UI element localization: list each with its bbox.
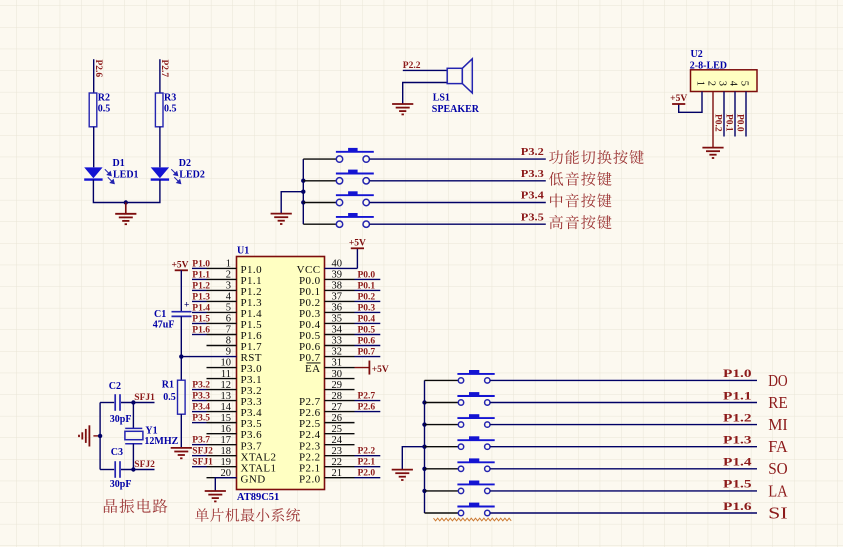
U1 pin 6 P1.5 <box>192 314 262 331</box>
wire button to net P1.0 <box>490 379 757 381</box>
U1 pin 36 P0.3 <box>299 303 380 320</box>
svg-text:LED1: LED1 <box>113 170 139 181</box>
caption 晶振电路 <box>104 499 167 513</box>
U1 pin 27 P2.6 <box>299 402 380 419</box>
svg-text:17: 17 <box>221 435 232 446</box>
U1 pin 13 P3.3 <box>192 391 262 408</box>
svg-text:U2: U2 <box>691 49 703 60</box>
U1 pin 19 XTAL1 <box>192 457 276 474</box>
U1 pin 22 P2.1 <box>299 457 380 474</box>
svg-text:P3.5: P3.5 <box>521 212 544 223</box>
wire U2 pin3 net P0.2 <box>723 92 725 137</box>
wire bus to button LA <box>425 490 459 492</box>
svg-text:6: 6 <box>226 314 231 325</box>
junction dots on top button bus <box>301 179 305 205</box>
svg-text:SFJ1: SFJ1 <box>134 393 155 403</box>
svg-text:U1: U1 <box>237 246 249 257</box>
caption 中音按键 <box>550 193 611 207</box>
ground for note buttons <box>392 470 413 480</box>
svg-text:40: 40 <box>332 259 343 270</box>
U1 pin 29 NC <box>325 380 355 391</box>
junction at side ground <box>98 434 102 438</box>
wire bus to button S3 <box>303 180 336 182</box>
U1 pin 25 P2.4 <box>299 424 354 441</box>
svg-text:11: 11 <box>221 369 231 380</box>
wire C1 to RST junction to R1 <box>180 316 182 380</box>
svg-text:47uF: 47uF <box>153 320 175 331</box>
svg-text:AT89C51: AT89C51 <box>237 492 279 503</box>
push button RE <box>457 392 494 405</box>
svg-text:R1: R1 <box>162 380 174 391</box>
capacitor C1 (electrolytic) <box>172 312 192 317</box>
svg-text:10: 10 <box>221 358 232 369</box>
svg-text:16: 16 <box>221 424 232 435</box>
svg-text:P2.7: P2.7 <box>358 392 376 402</box>
svg-text:P2.7: P2.7 <box>159 60 169 78</box>
svg-text:P0.4: P0.4 <box>358 314 376 324</box>
U1 pin 33 P0.6 <box>299 336 380 353</box>
svg-text:P3.2: P3.2 <box>521 147 544 158</box>
svg-text:P1.6: P1.6 <box>192 325 210 335</box>
push button FA <box>457 436 494 449</box>
wire bus to button S5 <box>303 223 336 225</box>
caption 低音按键 <box>549 172 612 186</box>
svg-text:R3: R3 <box>164 93 176 104</box>
caption 高音按键 <box>549 215 611 229</box>
wire button S3 to net P3.3 <box>370 180 546 182</box>
side ground of crystal circuit <box>79 425 89 446</box>
wire crystal left bus <box>99 403 101 470</box>
svg-text:31: 31 <box>332 358 343 369</box>
wire button S4 to net P3.4 <box>370 202 546 204</box>
svg-text:SFJ2: SFJ2 <box>134 460 155 470</box>
svg-text:27: 27 <box>332 402 343 413</box>
+5V symbol at EA pin 31 <box>355 361 389 376</box>
wire +5V to C1 <box>180 270 182 311</box>
svg-text:DO: DO <box>768 371 788 390</box>
U1 pin 10 P3.0 <box>207 358 263 375</box>
U1 pin 15 P3.5 <box>192 413 262 430</box>
svg-text:13: 13 <box>221 391 232 402</box>
svg-text:D2: D2 <box>179 158 191 169</box>
push button SI <box>457 503 494 516</box>
U1 pin 4 P1.3 <box>192 292 262 309</box>
junction at RST node <box>179 354 183 358</box>
+5V symbol of reset circuit <box>172 261 189 271</box>
wire P2.2 to speaker <box>403 69 447 71</box>
svg-text:30: 30 <box>332 369 343 380</box>
svg-text:29: 29 <box>332 380 343 391</box>
svg-text:15: 15 <box>221 413 232 424</box>
svg-text:SFJ2: SFJ2 <box>192 447 213 457</box>
svg-text:EA: EA <box>305 363 320 375</box>
svg-text:Y1: Y1 <box>145 425 157 436</box>
svg-text:SPEAKER: SPEAKER <box>432 104 480 115</box>
push button S4 <box>336 191 374 205</box>
svg-text:P3.4: P3.4 <box>192 403 210 413</box>
wire button to net P1.5 <box>490 490 757 492</box>
svg-text:30pF: 30pF <box>110 479 132 490</box>
svg-text:P0.0: P0.0 <box>358 270 376 280</box>
U1 pin 18 XTAL2 <box>192 446 276 463</box>
U1 pin 39 P0.0 <box>299 270 380 287</box>
U1 pin 24 P2.3 <box>299 435 354 452</box>
svg-text:7: 7 <box>226 325 231 336</box>
svg-text:12MHZ: 12MHZ <box>144 436 178 447</box>
U1 pin 37 P0.2 <box>299 292 380 309</box>
svg-text:P1.1: P1.1 <box>192 270 210 280</box>
IC U1 AT89C51 body <box>237 257 325 490</box>
svg-text:P3.5: P3.5 <box>192 414 210 424</box>
LED D1 <box>84 167 114 183</box>
ground at U1 GND pin 20 <box>205 478 237 502</box>
svg-text:P1.3: P1.3 <box>192 292 210 302</box>
svg-text:C2: C2 <box>109 381 121 392</box>
svg-text:3: 3 <box>716 81 727 86</box>
svg-text:21: 21 <box>332 468 343 479</box>
svg-text:P0.2: P0.2 <box>713 114 723 132</box>
svg-text:18: 18 <box>221 446 232 457</box>
U1 pin 31 EA <box>305 358 354 375</box>
svg-text:P1.2: P1.2 <box>723 412 752 424</box>
capacitor C2 <box>115 394 120 411</box>
wire U2 pin5 net P0.0 <box>745 92 747 137</box>
svg-text:5: 5 <box>226 303 231 314</box>
wire button to net P1.2 <box>490 424 757 426</box>
svg-text:FA: FA <box>768 437 788 456</box>
push button S5 <box>336 213 374 227</box>
svg-text:P1.4: P1.4 <box>723 457 752 469</box>
push button MI <box>457 414 494 427</box>
svg-text:37: 37 <box>332 292 343 303</box>
caption 功能切换按键 <box>549 150 644 164</box>
svg-text:P3.3: P3.3 <box>521 169 544 180</box>
wire button to net P1.1 <box>490 402 757 404</box>
U1 pin 32 P0.7 <box>299 347 380 364</box>
svg-text:LED2: LED2 <box>179 170 205 181</box>
wire crystal to SFJ2 node <box>132 444 134 470</box>
U1 pin 5 P1.4 <box>192 303 262 320</box>
svg-text:2: 2 <box>705 81 716 86</box>
U1 pin 14 P3.4 <box>192 402 262 419</box>
U1 pin 11 P3.1 <box>207 369 262 386</box>
svg-text:+5V: +5V <box>372 365 389 375</box>
speaker LS1 <box>447 59 472 93</box>
U1 pin 1 P1.0 <box>192 259 262 276</box>
svg-text:12: 12 <box>221 380 232 391</box>
wire bus to button MI <box>425 424 459 426</box>
svg-text:1: 1 <box>226 259 231 270</box>
U1 pin 12 P3.2 <box>192 380 262 397</box>
svg-text:P2.0: P2.0 <box>299 473 321 485</box>
U1 pin 35 P0.4 <box>299 314 380 331</box>
svg-text:RE: RE <box>768 393 788 412</box>
svg-text:38: 38 <box>332 281 343 292</box>
ground for LEDs <box>115 203 136 225</box>
wire U2 pin4 net P0.1 <box>734 92 736 137</box>
wire button to net P1.3 <box>490 446 757 448</box>
U1 pin 17 P3.7 <box>192 435 262 452</box>
svg-text:P1.1: P1.1 <box>723 390 752 402</box>
svg-text:0.5: 0.5 <box>163 392 176 403</box>
svg-text:8: 8 <box>226 336 231 347</box>
svg-text:0.5: 0.5 <box>164 104 177 115</box>
wire SFJ2 row <box>100 469 114 471</box>
svg-text:24: 24 <box>332 435 343 446</box>
svg-text:P0.6: P0.6 <box>358 337 376 347</box>
U1 pin 9 RST <box>181 347 262 364</box>
svg-text:D1: D1 <box>113 158 125 169</box>
wire P2.7 net vertical <box>159 59 161 93</box>
U1 pin 3 P1.2 <box>192 281 262 298</box>
push button SO <box>457 458 494 471</box>
wire R3 to D2 <box>159 127 161 168</box>
wire speaker bottom to ground <box>403 83 448 105</box>
svg-text:GND: GND <box>241 473 266 485</box>
svg-text:2: 2 <box>226 270 231 281</box>
U1 pin 16 P3.6 <box>207 424 263 441</box>
U1 pin 20 GND <box>207 468 266 485</box>
svg-text:23: 23 <box>332 446 343 457</box>
svg-text:9: 9 <box>226 347 231 358</box>
wire bus to button SI <box>425 512 459 514</box>
U1 pin 8 P1.7 <box>207 336 263 353</box>
resistor R3 <box>155 93 163 127</box>
svg-text:C3: C3 <box>111 447 123 458</box>
ground for U2 <box>702 148 723 158</box>
junction SFJ1 <box>131 400 135 404</box>
junction at LED ground node <box>124 200 128 204</box>
+5V symbol above VCC pin 40 <box>349 238 366 268</box>
wire R2 to D1 <box>93 127 95 168</box>
svg-text:P3.2: P3.2 <box>192 381 210 391</box>
wire LED cathodes to ground bus <box>93 180 159 203</box>
wire P2.6 net vertical <box>93 59 95 93</box>
U1 pin 7 P1.6 <box>192 325 262 342</box>
wire bus to button RE <box>425 402 459 404</box>
wire button bus vertical (top buttons) <box>302 159 304 224</box>
svg-text:P0.0: P0.0 <box>735 114 745 132</box>
svg-text:4: 4 <box>727 81 738 87</box>
caption 单片机最小系统 <box>195 508 300 522</box>
wire button to net P1.4 <box>490 468 757 470</box>
svg-text:P0.1: P0.1 <box>358 281 376 291</box>
resistor R2 <box>89 93 97 127</box>
svg-text:P3.4: P3.4 <box>521 191 544 202</box>
svg-text:R2: R2 <box>98 93 110 104</box>
svg-text:36: 36 <box>332 303 343 314</box>
wire U2 pin2 to ground <box>712 92 714 148</box>
U1 pin 23 P2.2 <box>299 446 380 463</box>
wire button bus vertical (note buttons) <box>424 380 426 513</box>
U1 pin 28 P2.7 <box>299 391 380 408</box>
wire U2 pin1 to +5V <box>679 92 702 113</box>
svg-text:P1.2: P1.2 <box>192 281 210 291</box>
ground under R1 <box>171 448 192 458</box>
wire C3 to SFJ2 node <box>121 469 155 471</box>
wire to side ground <box>93 435 100 437</box>
svg-text:33: 33 <box>332 336 343 347</box>
svg-text:34: 34 <box>332 325 343 336</box>
wire C2 to SFJ1 node <box>121 402 155 404</box>
wire button to net P1.6 <box>490 512 757 514</box>
wire bus to button S2 <box>303 158 336 160</box>
svg-text:P0.2: P0.2 <box>358 292 376 302</box>
svg-text:MI: MI <box>768 415 788 434</box>
wire button S2 to net P3.2 <box>370 158 546 160</box>
svg-text:25: 25 <box>332 424 343 435</box>
svg-text:P3.7: P3.7 <box>192 436 210 446</box>
capacitor C3 <box>115 461 120 478</box>
svg-text:+5V: +5V <box>172 261 189 271</box>
svg-text:+5V: +5V <box>349 238 366 248</box>
ground for speaker <box>392 104 413 114</box>
push button S2 <box>336 148 374 162</box>
svg-text:35: 35 <box>332 314 343 325</box>
push button S3 <box>336 170 374 184</box>
push button LA <box>457 481 494 494</box>
junction dots on note button bus <box>422 400 426 493</box>
wire bus to button DO <box>425 379 459 381</box>
svg-text:P0.7: P0.7 <box>358 348 376 358</box>
resistor R1 <box>178 380 186 414</box>
U1 pin 38 P0.1 <box>299 281 380 298</box>
svg-text:P2.6: P2.6 <box>358 403 376 413</box>
svg-text:SI: SI <box>768 503 788 522</box>
svg-text:P1.0: P1.0 <box>723 368 752 380</box>
U1 pin 21 P2.0 <box>299 468 380 485</box>
svg-text:LA: LA <box>768 481 788 500</box>
svg-text:+: + <box>184 301 189 311</box>
svg-text:P0.1: P0.1 <box>724 114 734 132</box>
svg-text:28: 28 <box>332 391 343 402</box>
svg-text:P0.5: P0.5 <box>358 325 376 335</box>
svg-text:SFJ1: SFJ1 <box>192 458 213 468</box>
svg-text:P0.3: P0.3 <box>358 303 376 313</box>
error marker zigzag <box>434 518 512 521</box>
svg-text:22: 22 <box>332 457 343 468</box>
wire SFJ1 to crystal <box>132 403 134 429</box>
svg-text:19: 19 <box>221 457 232 468</box>
svg-text:P2.2: P2.2 <box>358 447 376 457</box>
svg-text:P2.2: P2.2 <box>403 61 421 71</box>
component U2 body <box>691 70 758 92</box>
junction SFJ2 <box>131 467 135 471</box>
ground for top buttons <box>271 214 292 224</box>
svg-text:LS1: LS1 <box>433 93 450 104</box>
svg-text:3: 3 <box>226 281 231 292</box>
svg-text:P2.1: P2.1 <box>358 458 376 468</box>
push button DO <box>457 370 494 383</box>
svg-text:26: 26 <box>332 413 343 424</box>
wire bus to button S4 <box>303 202 336 204</box>
svg-text:0.5: 0.5 <box>98 104 111 115</box>
svg-text:32: 32 <box>332 347 343 358</box>
wire bus to ground (note buttons) <box>402 447 424 470</box>
svg-text:P1.3: P1.3 <box>723 435 752 447</box>
wire bus to button SO <box>425 468 459 470</box>
svg-text:5: 5 <box>738 81 749 86</box>
wire SFJ1 row <box>100 402 114 404</box>
svg-text:P2.0: P2.0 <box>358 469 376 479</box>
svg-text:+5V: +5V <box>670 94 687 104</box>
LED D2 <box>151 167 181 183</box>
U1 pin 26 P2.5 <box>299 413 354 430</box>
wire bus to ground (top buttons) <box>281 192 303 214</box>
svg-text:P2.6: P2.6 <box>93 60 103 78</box>
svg-text:30pF: 30pF <box>110 414 132 425</box>
svg-text:4: 4 <box>226 292 232 303</box>
svg-text:14: 14 <box>221 402 232 413</box>
svg-text:39: 39 <box>332 270 343 281</box>
svg-text:1: 1 <box>694 81 705 86</box>
svg-text:C1: C1 <box>154 309 166 320</box>
svg-text:P1.0: P1.0 <box>192 259 210 269</box>
crystal Y1 <box>125 428 143 443</box>
wire button S5 to net P3.5 <box>370 223 546 225</box>
svg-text:P1.6: P1.6 <box>723 501 752 513</box>
svg-text:P1.4: P1.4 <box>192 303 210 313</box>
U1 pin 40 VCC <box>297 259 358 276</box>
svg-text:P3.3: P3.3 <box>192 392 210 402</box>
svg-text:P1.5: P1.5 <box>192 314 210 324</box>
svg-text:P1.5: P1.5 <box>723 479 752 491</box>
+5V symbol at U2 <box>670 94 687 104</box>
wire R1 to ground <box>180 414 182 448</box>
svg-text:SO: SO <box>768 459 788 478</box>
wire bus to button FA <box>425 446 459 448</box>
U1 pin 30 NC <box>325 369 355 380</box>
U1 pin 2 P1.1 <box>192 270 262 287</box>
U1 pin 34 P0.5 <box>299 325 380 342</box>
